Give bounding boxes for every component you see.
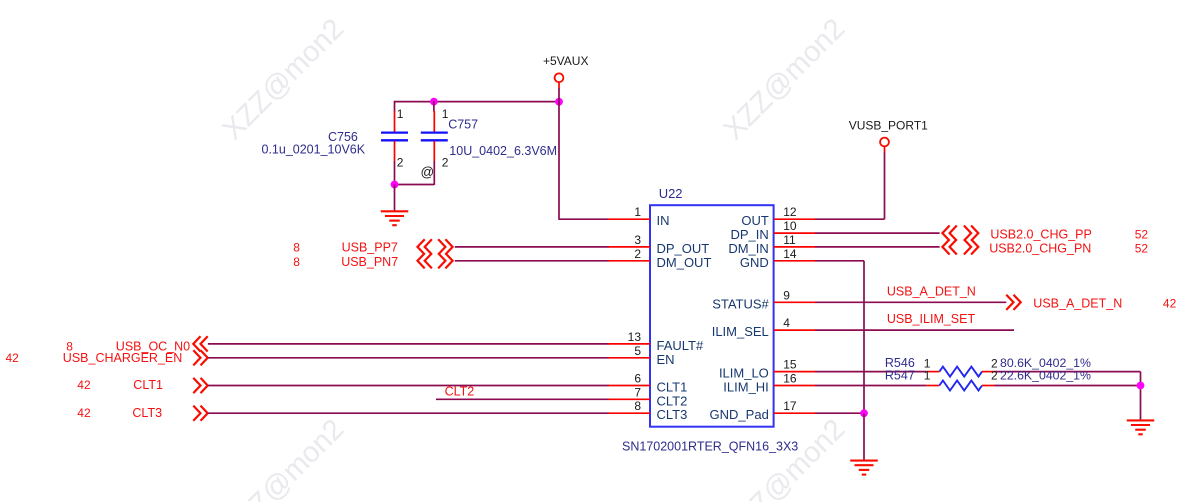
capacitor C756 bbox=[394, 101, 396, 112]
svg-text:42: 42 bbox=[77, 406, 91, 420]
node resistor gnd junction bbox=[1137, 382, 1145, 390]
svg-text:ILIM_HI: ILIM_HI bbox=[723, 380, 769, 395]
svg-text:ILIM_SEL: ILIM_SEL bbox=[712, 324, 769, 339]
wire bbox=[558, 88, 560, 220]
svg-text:IN: IN bbox=[657, 213, 670, 228]
node C757 junction bbox=[430, 98, 438, 106]
wire bbox=[208, 385, 609, 387]
svg-text:16: 16 bbox=[783, 372, 797, 386]
svg-text:10U_0402_6.3V6M: 10U_0402_6.3V6M bbox=[449, 144, 557, 158]
svg-text:2: 2 bbox=[442, 155, 449, 169]
svg-text:8: 8 bbox=[293, 241, 300, 255]
svg-text:C757: C757 bbox=[448, 117, 478, 131]
svg-text:52: 52 bbox=[1135, 228, 1149, 242]
svg-text:DP_IN: DP_IN bbox=[731, 227, 769, 242]
wire bbox=[815, 232, 939, 234]
svg-text:USB2.0_CHG_PN: USB2.0_CHG_PN bbox=[989, 242, 1091, 256]
svg-text:14: 14 bbox=[783, 247, 797, 261]
ground bbox=[850, 460, 878, 462]
svg-text:VUSB_PORT1: VUSB_PORT1 bbox=[849, 119, 928, 133]
offpage connector USB_OC_N0 bbox=[193, 336, 207, 351]
wire bbox=[455, 246, 609, 248]
svg-text:CLT2: CLT2 bbox=[445, 384, 475, 398]
svg-text:USB_A_DET_N: USB_A_DET_N bbox=[887, 285, 976, 299]
svg-text:2: 2 bbox=[397, 155, 404, 169]
wire bbox=[884, 153, 886, 220]
offpage connector USB_A_DET_N out bbox=[1006, 295, 1020, 310]
wire bbox=[863, 261, 865, 413]
svg-text:5: 5 bbox=[634, 344, 641, 358]
svg-text:2: 2 bbox=[634, 247, 641, 261]
svg-text:1: 1 bbox=[634, 205, 641, 219]
wire bbox=[815, 301, 1006, 303]
svg-text:17: 17 bbox=[783, 399, 797, 413]
svg-text:3: 3 bbox=[634, 233, 641, 247]
capacitor C757 bbox=[433, 101, 435, 112]
svg-text:42: 42 bbox=[77, 378, 91, 392]
wire bbox=[815, 385, 926, 387]
wire bbox=[436, 398, 609, 400]
node GND_Pad junction bbox=[860, 409, 868, 417]
offpage connector USB2.0_CHG_PP bbox=[942, 226, 956, 241]
wire bbox=[208, 343, 609, 345]
svg-text:CLT2: CLT2 bbox=[657, 393, 688, 408]
offpage connector USB_PN7 bbox=[418, 253, 432, 268]
svg-text:13: 13 bbox=[628, 330, 642, 344]
wire bbox=[815, 371, 926, 373]
svg-text:+5VAUX: +5VAUX bbox=[543, 54, 588, 68]
svg-text:8: 8 bbox=[293, 255, 300, 269]
svg-text:1: 1 bbox=[924, 368, 931, 382]
svg-text:USB_ILIM_SET: USB_ILIM_SET bbox=[887, 312, 976, 326]
offpage connector CLT3 bbox=[193, 406, 207, 421]
wire bbox=[995, 371, 1141, 373]
svg-text:52: 52 bbox=[1135, 242, 1149, 256]
resistor R546 bbox=[926, 371, 939, 373]
wire bbox=[815, 412, 864, 414]
svg-text:DP_OUT: DP_OUT bbox=[657, 241, 710, 256]
wire bbox=[558, 82, 560, 88]
resistor R547 bbox=[926, 385, 939, 387]
svg-text:USB_CHARGER_EN: USB_CHARGER_EN bbox=[63, 351, 182, 365]
svg-text:USB_PN7: USB_PN7 bbox=[341, 255, 398, 269]
svg-text:11: 11 bbox=[783, 233, 796, 247]
ground bbox=[1127, 419, 1155, 421]
svg-text:DM_OUT: DM_OUT bbox=[657, 255, 712, 270]
wire bbox=[559, 218, 609, 220]
wire bbox=[815, 329, 1014, 331]
svg-text:R547: R547 bbox=[885, 369, 915, 383]
svg-text:OUT: OUT bbox=[741, 213, 769, 228]
svg-text:U22: U22 bbox=[659, 186, 683, 201]
wire bbox=[394, 184, 435, 186]
svg-text:USB_PP7: USB_PP7 bbox=[342, 241, 398, 255]
svg-text:GND: GND bbox=[740, 255, 769, 270]
node +5VAUX junction bbox=[555, 98, 563, 106]
svg-text:FAULT#: FAULT# bbox=[657, 338, 704, 353]
offpage connector USB_PP7 bbox=[418, 239, 432, 254]
svg-text:DM_IN: DM_IN bbox=[728, 241, 768, 256]
svg-text:15: 15 bbox=[783, 358, 797, 372]
svg-text:SN1702001RTER_QFN16_3X3: SN1702001RTER_QFN16_3X3 bbox=[622, 440, 798, 454]
svg-text:CLT3: CLT3 bbox=[132, 406, 162, 420]
svg-text:CLT3: CLT3 bbox=[657, 407, 688, 422]
svg-text:0.1u_0201_10V6K: 0.1u_0201_10V6K bbox=[262, 142, 366, 156]
svg-text:USB2.0_CHG_PP: USB2.0_CHG_PP bbox=[990, 228, 1091, 242]
svg-text:2: 2 bbox=[991, 368, 998, 382]
offpage connector USB2.0_CHG_PN bbox=[942, 239, 956, 254]
wire bbox=[884, 147, 886, 154]
svg-text:12: 12 bbox=[783, 205, 797, 219]
svg-text:USB_A_DET_N: USB_A_DET_N bbox=[1033, 296, 1122, 310]
node cap gnd junction bbox=[391, 181, 399, 189]
svg-text:8: 8 bbox=[634, 399, 641, 413]
wire bbox=[815, 246, 939, 248]
svg-text:10: 10 bbox=[783, 219, 797, 233]
wire bbox=[208, 412, 609, 414]
wire bbox=[394, 185, 396, 211]
wire bbox=[395, 101, 560, 103]
wire bbox=[863, 413, 865, 460]
wire bbox=[815, 260, 864, 262]
wire bbox=[208, 357, 609, 359]
svg-text:GND_Pad: GND_Pad bbox=[710, 407, 769, 422]
svg-text:STATUS#: STATUS# bbox=[712, 296, 769, 311]
svg-text:1: 1 bbox=[397, 107, 404, 121]
svg-text:6: 6 bbox=[634, 372, 641, 386]
wire bbox=[1140, 372, 1142, 420]
svg-text:ILIM_LO: ILIM_LO bbox=[719, 366, 769, 381]
svg-text:42: 42 bbox=[6, 351, 20, 365]
svg-text:9: 9 bbox=[783, 288, 790, 302]
wire bbox=[455, 260, 609, 262]
power symbol +5VAUX bbox=[555, 73, 564, 82]
ground bbox=[381, 210, 409, 212]
offpage connector CLT1 bbox=[193, 378, 207, 393]
svg-text:4: 4 bbox=[783, 316, 790, 330]
offpage connector USB_CHARGER_EN bbox=[193, 350, 207, 365]
svg-text:42: 42 bbox=[1163, 296, 1177, 310]
svg-text:@: @ bbox=[421, 165, 435, 180]
svg-text:CLT1: CLT1 bbox=[657, 380, 688, 395]
wire bbox=[815, 218, 884, 220]
svg-text:7: 7 bbox=[634, 385, 641, 399]
svg-text:22.6K_0402_1%: 22.6K_0402_1% bbox=[1000, 369, 1091, 383]
op-amp U22 body bbox=[650, 205, 774, 427]
svg-text:CLT1: CLT1 bbox=[133, 378, 163, 392]
power symbol VUSB_PORT1 bbox=[880, 138, 889, 147]
wire bbox=[995, 385, 1141, 387]
svg-text:1: 1 bbox=[442, 107, 449, 121]
svg-text:EN: EN bbox=[657, 352, 675, 367]
